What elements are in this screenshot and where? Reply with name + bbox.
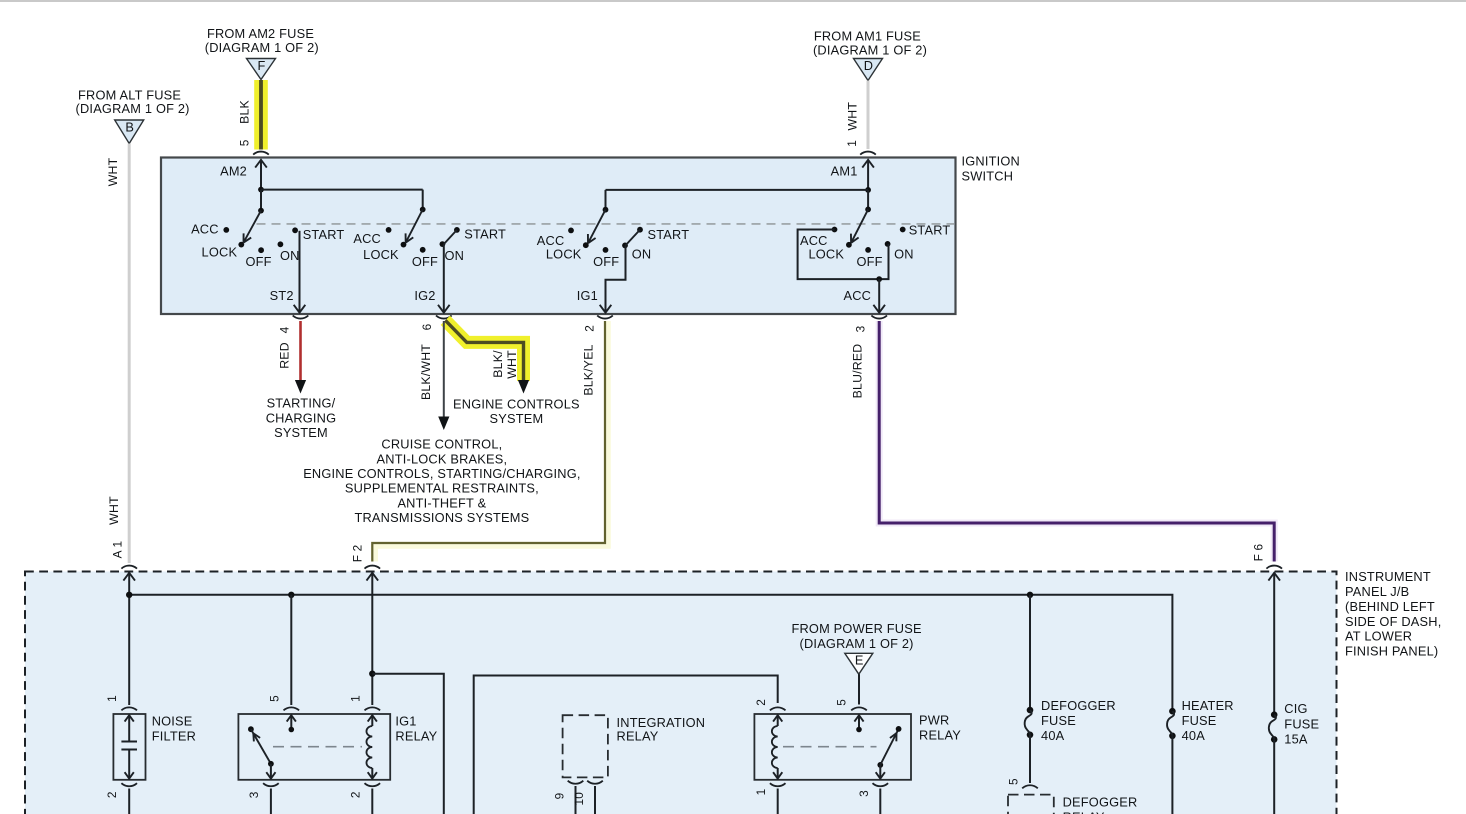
connector F2 entry <box>365 566 381 569</box>
svg-text:ACC: ACC <box>353 231 381 246</box>
wire IG1 relay pin3 down <box>270 789 272 814</box>
cig fuse <box>1271 711 1278 718</box>
wire BLK/WHT highlighted to engine controls <box>445 320 523 381</box>
wire cig fuse down <box>1273 739 1275 814</box>
svg-text:OFF: OFF <box>593 254 619 269</box>
heater fuse <box>1169 708 1176 715</box>
output ACC wiring <box>798 230 889 280</box>
wire AM2 bus to cluster2 <box>261 189 423 191</box>
svg-text:SIDE OF DASH,: SIDE OF DASH, <box>1345 614 1441 629</box>
connector ST2 <box>293 316 309 319</box>
connector IG1 <box>597 316 613 319</box>
PWR relay switch <box>877 762 883 768</box>
svg-text:IG1: IG1 <box>577 288 598 303</box>
svg-text:D: D <box>864 58 873 73</box>
svg-text:FROM AM2 FUSE: FROM AM2 FUSE <box>207 26 314 41</box>
wire corner to PWR relay pin2 <box>474 676 778 814</box>
svg-text:PANEL J/B: PANEL J/B <box>1345 584 1409 599</box>
wire IG1 relay pin2 down <box>371 789 373 814</box>
wire PWR relay pin1 down <box>777 789 779 814</box>
svg-text:DEFOGGER: DEFOGGER <box>1063 794 1138 809</box>
connector IG1 relay pin5 <box>284 707 300 710</box>
frame top hairline <box>0 0 1466 2</box>
connector IG1 relay pin2 <box>365 783 381 786</box>
svg-text:10: 10 <box>572 792 586 806</box>
svg-text:START: START <box>303 227 345 242</box>
IG1 relay link dashed <box>273 746 362 748</box>
wire BLU/RED to F6 <box>879 321 1274 562</box>
svg-text:AM2: AM2 <box>220 163 247 178</box>
svg-text:B: B <box>125 119 134 134</box>
connector IG1 relay pin3 <box>263 783 279 786</box>
IG1 relay switch <box>248 726 254 732</box>
connector defogger relay pin5 <box>1022 785 1038 788</box>
output ST2 <box>299 231 301 313</box>
defogger relay box <box>1008 795 1054 814</box>
junction dot bus IG1 relay <box>288 592 294 598</box>
svg-text:2: 2 <box>754 699 768 706</box>
IG1 relay pin3 stub <box>270 764 272 779</box>
svg-text:PWR: PWR <box>919 712 949 727</box>
svg-text:SYSTEM: SYSTEM <box>489 411 543 426</box>
svg-text:F 6: F 6 <box>1252 543 1266 561</box>
PWR relay box <box>754 714 911 780</box>
svg-text:LOCK: LOCK <box>546 247 582 262</box>
arrow to starting/charging <box>295 380 306 394</box>
svg-text:SUPPLEMENTAL RESTRAINTS,: SUPPLEMENTAL RESTRAINTS, <box>345 481 539 496</box>
wire integration pin9 down <box>575 786 577 814</box>
wire AM1 bus to cluster3 <box>606 189 869 191</box>
PWR relay pin3 stub <box>879 765 881 779</box>
svg-text:(DIAGRAM 1 OF 2): (DIAGRAM 1 OF 2) <box>205 40 319 55</box>
svg-text:ST2: ST2 <box>270 288 294 303</box>
junction dot AM2 <box>258 187 264 193</box>
svg-text:WHT: WHT <box>107 496 121 525</box>
svg-text:BLK/: BLK/ <box>491 350 505 378</box>
svg-text:40A: 40A <box>1041 728 1065 743</box>
svg-text:RELAY: RELAY <box>919 727 961 742</box>
wire BLK/YEL to F2 <box>375 321 608 562</box>
connector noise filter pin2 <box>121 783 137 786</box>
svg-text:3: 3 <box>857 790 871 797</box>
svg-text:FROM AM1 FUSE: FROM AM1 FUSE <box>814 28 921 43</box>
svg-text:LOCK: LOCK <box>363 247 399 262</box>
instrument panel J/B box <box>25 572 1337 814</box>
svg-text:BLU/RED: BLU/RED <box>851 344 865 399</box>
svg-text:FUSE: FUSE <box>1041 713 1076 728</box>
svg-text:HEATER: HEATER <box>1182 698 1234 713</box>
svg-text:TRANSMISSIONS SYSTEMS: TRANSMISSIONS SYSTEMS <box>354 510 529 525</box>
svg-text:SWITCH: SWITCH <box>962 168 1014 183</box>
output ACC <box>878 279 880 313</box>
switch cluster 1 <box>258 208 264 214</box>
svg-text:BLK/WHT: BLK/WHT <box>419 344 433 400</box>
junction dot bus defogger <box>1027 592 1033 598</box>
noise filter box <box>113 714 145 780</box>
svg-text:9: 9 <box>553 793 567 800</box>
connector PWR relay pin2 <box>770 707 786 710</box>
wire AM2 to pivot1 <box>260 190 262 211</box>
IG1 relay box <box>238 714 390 780</box>
ignition switch box <box>161 158 956 315</box>
svg-text:5: 5 <box>1006 778 1020 785</box>
svg-text:IG1: IG1 <box>395 713 416 728</box>
svg-text:ANTI-THEFT &: ANTI-THEFT & <box>397 495 486 510</box>
svg-text:15A: 15A <box>1284 732 1308 747</box>
connector at AM2 <box>253 152 269 155</box>
svg-text:ANTI-LOCK BRAKES,: ANTI-LOCK BRAKES, <box>377 451 508 466</box>
svg-text:IG2: IG2 <box>414 288 435 303</box>
wire WHT from D <box>867 81 870 150</box>
svg-text:2: 2 <box>348 791 362 798</box>
connector PWR relay pin5 <box>851 707 867 710</box>
IG1 relay coil <box>368 715 377 721</box>
svg-text:2: 2 <box>105 791 119 798</box>
wire defogger fuse to relay <box>1029 735 1031 783</box>
PWR relay coil <box>773 715 782 721</box>
node A1 entry <box>123 573 135 581</box>
svg-text:START: START <box>909 223 951 238</box>
switch cluster 4 <box>865 207 871 213</box>
svg-text:ENGINE CONTROLS: ENGINE CONTROLS <box>453 397 580 412</box>
svg-text:CIG: CIG <box>1284 701 1307 716</box>
node AM2 <box>255 160 267 168</box>
svg-text:RED: RED <box>278 342 292 369</box>
junction dot F2 branch <box>369 671 375 677</box>
svg-text:BLK: BLK <box>238 99 252 123</box>
junction dot bus A1 <box>126 592 132 598</box>
wire BLK from F (yellow highlighted) <box>254 80 268 150</box>
svg-text:OFF: OFF <box>856 254 882 269</box>
svg-text:ON: ON <box>632 247 652 262</box>
svg-text:(DIAGRAM 1 OF 2): (DIAGRAM 1 OF 2) <box>76 101 190 116</box>
svg-text:5: 5 <box>267 695 281 702</box>
node F6 entry <box>1268 573 1280 581</box>
IG1 relay pin5 stub <box>287 715 296 721</box>
svg-text:BLK/YEL: BLK/YEL <box>581 344 595 395</box>
wire F2 branch right-down <box>372 674 444 814</box>
wire WHT from B to A1 <box>128 144 131 564</box>
svg-text:40A: 40A <box>1182 728 1206 743</box>
wire heater fuse down <box>1171 736 1173 814</box>
svg-text:WHT: WHT <box>106 157 120 186</box>
svg-text:OFF: OFF <box>412 254 438 269</box>
svg-text:1: 1 <box>348 695 362 702</box>
connector triangle D <box>854 59 883 81</box>
svg-text:SYSTEM: SYSTEM <box>274 425 328 440</box>
svg-text:FUSE: FUSE <box>1284 716 1319 731</box>
svg-text:5: 5 <box>238 139 252 146</box>
svg-text:INSTRUMENT: INSTRUMENT <box>1345 569 1431 584</box>
svg-text:CRUISE CONTROL,: CRUISE CONTROL, <box>381 437 502 452</box>
output IG2 <box>444 230 457 244</box>
svg-text:ENGINE CONTROLS, STARTING/CHAR: ENGINE CONTROLS, STARTING/CHARGING, <box>303 466 580 481</box>
svg-text:(DIAGRAM 1 OF 2): (DIAGRAM 1 OF 2) <box>813 43 927 58</box>
connector integration pin10 <box>587 781 603 784</box>
svg-text:1: 1 <box>105 695 119 702</box>
connector at AM1 <box>860 152 876 155</box>
connector IG1 relay pin1 <box>365 707 381 710</box>
arrow to cruise control systems <box>438 417 449 431</box>
svg-text:FINISH PANEL): FINISH PANEL) <box>1345 644 1438 659</box>
svg-text:(BEHIND LEFT: (BEHIND LEFT <box>1345 599 1435 614</box>
svg-text:NOISE: NOISE <box>152 713 193 728</box>
defogger fuse <box>1027 707 1034 714</box>
svg-text:LOCK: LOCK <box>202 245 238 260</box>
wire AM1 to pivot4 <box>867 190 869 210</box>
wire PWR relay pin3 down <box>879 789 881 814</box>
junction dot ACC out <box>876 276 882 282</box>
svg-text:OFF: OFF <box>245 254 271 269</box>
wire bus to IG1 relay pin5 <box>290 595 292 705</box>
svg-text:ON: ON <box>444 248 464 263</box>
svg-text:F 2: F 2 <box>351 545 365 563</box>
svg-text:START: START <box>464 227 506 242</box>
wire power bus <box>129 595 1172 711</box>
node F2 entry <box>367 573 379 581</box>
svg-text:(DIAGRAM 1 OF 2): (DIAGRAM 1 OF 2) <box>800 636 914 651</box>
connector PWR relay pin3 <box>873 783 889 786</box>
svg-text:DEFOGGER: DEFOGGER <box>1041 698 1116 713</box>
wire RED <box>299 321 302 381</box>
svg-text:WHT: WHT <box>846 102 860 131</box>
dashed key-position line <box>257 223 955 225</box>
wire noise pin2 down <box>128 789 130 814</box>
wire BLK/WHT down <box>443 321 445 417</box>
PWR relay link dashed <box>783 746 877 748</box>
svg-text:ON: ON <box>280 248 300 263</box>
connector ACC <box>871 316 887 319</box>
svg-text:E: E <box>855 653 864 668</box>
wire bus to defogger fuse <box>1029 595 1031 710</box>
svg-text:AT LOWER: AT LOWER <box>1345 629 1412 644</box>
svg-text:ACC: ACC <box>191 222 219 237</box>
svg-text:CHARGING: CHARGING <box>266 410 337 425</box>
connector triangle B <box>115 120 144 144</box>
svg-text:4: 4 <box>277 326 291 333</box>
svg-text:ACC: ACC <box>843 288 871 303</box>
switch cluster 3 <box>603 207 609 213</box>
arrow to engine controls <box>518 380 529 394</box>
svg-text:START: START <box>648 227 690 242</box>
svg-text:A 1: A 1 <box>111 541 125 559</box>
connector A1 <box>121 566 137 569</box>
junction dot AM1 <box>865 187 871 193</box>
svg-text:1: 1 <box>754 789 768 796</box>
svg-text:WHT: WHT <box>505 350 519 379</box>
switch cluster 2 <box>420 207 426 213</box>
svg-text:3: 3 <box>247 791 261 798</box>
noise filter capacitor <box>125 715 134 721</box>
connector integration pin9 <box>568 781 584 784</box>
integration relay box <box>563 715 608 777</box>
svg-text:6: 6 <box>420 323 434 330</box>
svg-text:RELAY: RELAY <box>617 728 659 743</box>
svg-text:FROM POWER FUSE: FROM POWER FUSE <box>791 621 921 636</box>
connector noise filter pin1 <box>121 707 137 710</box>
svg-text:LOCK: LOCK <box>808 247 844 262</box>
connector IG2 <box>436 316 452 319</box>
node AM1 <box>862 160 874 168</box>
svg-text:3: 3 <box>853 325 867 332</box>
svg-text:STARTING/: STARTING/ <box>267 396 336 411</box>
wire integration pin10 down <box>594 786 596 814</box>
connector triangle F <box>247 59 276 80</box>
svg-text:FILTER: FILTER <box>152 728 196 743</box>
svg-text:2: 2 <box>583 325 597 332</box>
svg-text:IGNITION: IGNITION <box>962 154 1020 169</box>
output IG1 <box>626 230 641 246</box>
connector F6 entry <box>1266 566 1282 569</box>
svg-text:FUSE: FUSE <box>1182 713 1217 728</box>
svg-text:ON: ON <box>894 247 914 262</box>
svg-text:F: F <box>257 58 265 73</box>
svg-text:AM1: AM1 <box>831 163 858 178</box>
svg-text:1: 1 <box>845 140 859 147</box>
svg-text:RELAY: RELAY <box>395 728 437 743</box>
connector PWR relay pin1 <box>770 783 786 786</box>
connector triangle E <box>845 653 873 674</box>
wire from E to PWR relay pin5 <box>858 674 860 704</box>
svg-text:5: 5 <box>835 699 849 706</box>
PWR relay pin5 stub <box>854 715 863 721</box>
svg-text:RELAY: RELAY <box>1063 809 1105 814</box>
